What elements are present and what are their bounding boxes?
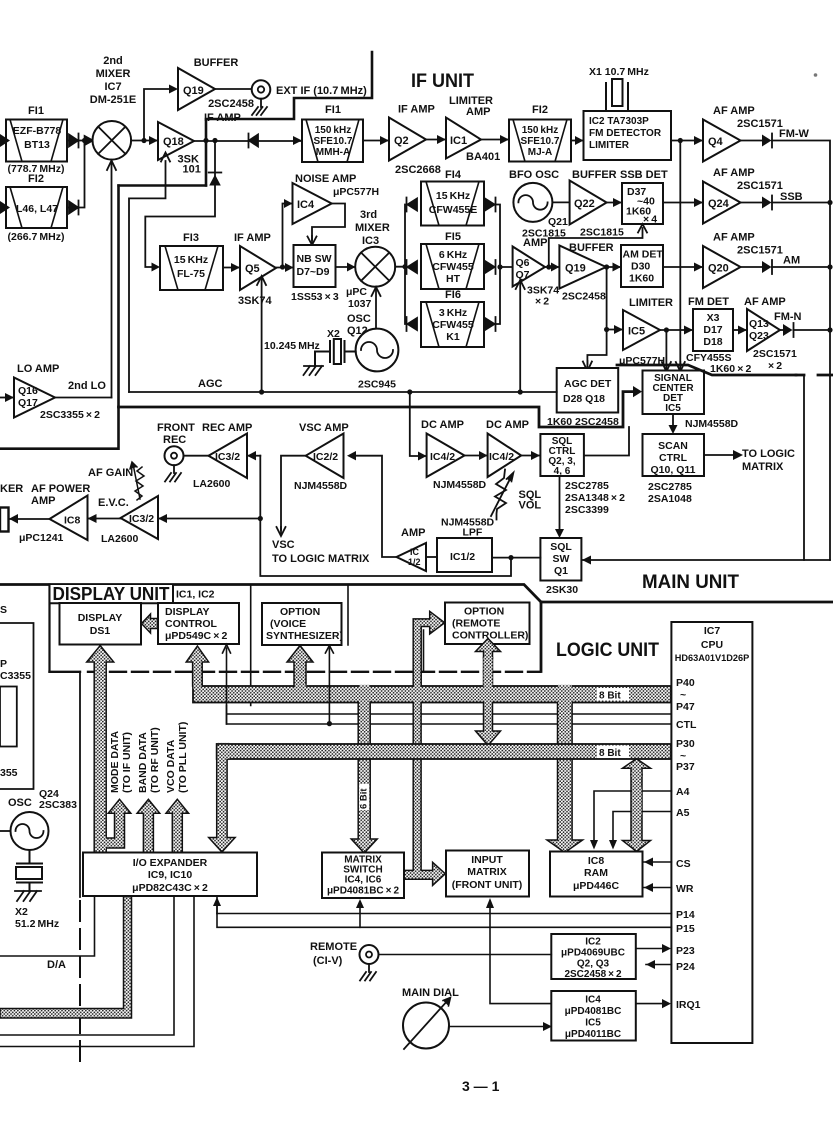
svg-text:BAND DATA: BAND DATA <box>137 732 149 793</box>
IC5 input from AM buffer rail <box>587 267 606 364</box>
svg-text:μPD549C × 2: μPD549C × 2 <box>165 630 227 642</box>
IC5 out down to signal det <box>665 330 667 370</box>
svg-text:AGC: AGC <box>198 378 223 390</box>
ground under FRONT REC <box>165 465 181 481</box>
wire 2nd LO to mixer rail <box>55 397 112 399</box>
svg-text:IC2: IC2 <box>585 937 601 948</box>
svg-text:Q19: Q19 <box>565 263 586 275</box>
svg-text:SSB: SSB <box>780 191 803 203</box>
8 Bit labels <box>597 688 629 701</box>
svg-text:FI6: FI6 <box>445 289 461 301</box>
svg-text:FI1: FI1 <box>28 105 44 117</box>
MATRIX SWITCH box <box>322 853 404 899</box>
IC4 output step down to NB SW <box>312 204 345 241</box>
wire FI1 to node <box>79 140 93 142</box>
svg-text:IC4/2: IC4/2 <box>489 451 514 463</box>
svg-text:FM-W: FM-W <box>779 128 810 140</box>
svg-text:IC4, IC6: IC4, IC6 <box>345 875 382 886</box>
bus elbow to DISPLAY CONTROL + head <box>186 646 208 686</box>
connector EXT IF <box>252 80 271 99</box>
svg-text:VSC AMP: VSC AMP <box>299 422 349 434</box>
bus3 stipple to left edge <box>0 897 132 1019</box>
svg-text:D30: D30 <box>631 261 650 273</box>
svg-text:2nd LO: 2nd LO <box>68 380 106 392</box>
unit boundary vertical at x=80 <box>79 672 81 897</box>
RAM double stipple arrow to bus2 <box>623 759 651 775</box>
svg-text:IC: IC <box>410 547 420 557</box>
svg-text:IC3/2: IC3/2 <box>215 451 240 463</box>
filter FI3 15KHz FL-75 <box>160 246 223 290</box>
svg-text:DISPLAY: DISPLAY <box>78 612 123 624</box>
svg-text:A5: A5 <box>676 807 690 819</box>
SQL CTRL box <box>540 434 584 476</box>
svg-text:IC3: IC3 <box>362 235 379 247</box>
svg-text:Q4: Q4 <box>708 136 724 148</box>
svg-text:A4: A4 <box>676 786 690 798</box>
svg-text:NJM4558D: NJM4558D <box>433 479 487 491</box>
svg-text:2SC3399: 2SC3399 <box>565 504 609 516</box>
display unit dividers <box>251 586 348 706</box>
svg-text:IC3/2: IC3/2 <box>129 513 154 525</box>
svg-text:355: 355 <box>0 767 18 779</box>
VSC amp out down arrow <box>281 456 306 530</box>
ground under EXT IF <box>253 99 269 106</box>
svg-text:2nd: 2nd <box>103 55 123 67</box>
svg-text:OPTION: OPTION <box>464 606 504 618</box>
svg-text:LA2600: LA2600 <box>193 478 231 490</box>
svg-text:CONTROLLER): CONTROLLER) <box>452 630 528 642</box>
P14 line <box>217 913 671 915</box>
svg-text:DC AMP: DC AMP <box>421 419 464 431</box>
svg-text:SSB DET: SSB DET <box>620 169 668 181</box>
svg-text:MIXER: MIXER <box>96 68 131 80</box>
svg-text:IC1, IC2: IC1, IC2 <box>176 589 215 601</box>
svg-text:P37: P37 <box>676 761 695 773</box>
svg-text:KER: KER <box>0 483 23 495</box>
svg-text:S: S <box>0 604 7 616</box>
svg-text:HT: HT <box>446 273 461 285</box>
display unit top border <box>0 585 541 603</box>
wire Q2 to IC1 <box>426 139 446 141</box>
wire FI3 to Q5 <box>223 267 240 269</box>
svg-text:IF AMP: IF AMP <box>234 232 271 244</box>
svg-text:μPC1241: μPC1241 <box>19 532 64 544</box>
svg-text:LIMITER: LIMITER <box>589 140 630 151</box>
svg-text:IF AMP: IF AMP <box>204 112 241 124</box>
svg-text:Q10, Q11: Q10, Q11 <box>651 464 696 476</box>
svg-text:Q7: Q7 <box>516 269 530 281</box>
filter FI5 6KHz CFW455HT <box>421 244 484 289</box>
svg-text:HD63A01V1D26P: HD63A01V1D26P <box>675 653 750 663</box>
svg-text:P47: P47 <box>676 701 695 713</box>
svg-text:FI2: FI2 <box>28 173 44 185</box>
AF amp Q24 (SSB) <box>703 182 741 224</box>
SQL VOL pot <box>495 470 506 520</box>
svg-text:Q23: Q23 <box>749 330 769 342</box>
svg-text:(TO RF UNIT): (TO RF UNIT) <box>149 727 161 793</box>
svg-text:2SA1348 × 2: 2SA1348 × 2 <box>565 492 625 504</box>
AF amp Q20 (AM) <box>703 246 741 288</box>
svg-text:Q13: Q13 <box>749 318 769 330</box>
svg-text:CS: CS <box>676 858 691 870</box>
svg-text:× 2: × 2 <box>768 360 782 372</box>
svg-text:2SC1571: 2SC1571 <box>753 348 797 360</box>
svg-text:OSC: OSC <box>347 313 371 325</box>
DISPLAY DS1 box <box>60 603 142 645</box>
svg-text:P40: P40 <box>676 677 695 689</box>
svg-text:Q20: Q20 <box>708 263 729 275</box>
P15 line <box>217 901 671 927</box>
IF amp Q18 <box>158 122 194 160</box>
svg-text:1/2: 1/2 <box>408 557 421 567</box>
svg-text:μPC577H: μPC577H <box>333 186 379 198</box>
WR arrow <box>644 887 671 889</box>
diode after FI1 <box>67 134 79 148</box>
svg-text:I/O EXPANDER: I/O EXPANDER <box>133 857 208 869</box>
2nd mixer IC7 DM-251E <box>93 121 132 160</box>
svg-text:EXT IF (10.7 MHz): EXT IF (10.7 MHz) <box>276 85 367 97</box>
display unit left border <box>48 585 50 672</box>
svg-text:SYNTHESIZER): SYNTHESIZER) <box>266 630 343 642</box>
stipple arrow into MATRIX SWITCH left <box>404 872 406 874</box>
filter FI2 150kHz SFE10.7 MJ-A <box>509 120 571 162</box>
svg-text:2SC3355 × 2: 2SC3355 × 2 <box>40 409 100 421</box>
thick trunk wire to signal center det <box>119 392 634 427</box>
svg-text:D/A: D/A <box>47 959 66 971</box>
AGC DET box <box>557 368 619 413</box>
svg-text:REMOTE: REMOTE <box>310 941 357 953</box>
svg-text:3SK74: 3SK74 <box>238 295 273 307</box>
svg-text:IC5: IC5 <box>585 1018 601 1029</box>
svg-text:2SC2785: 2SC2785 <box>648 481 692 493</box>
limiter amp IC1 <box>446 118 481 159</box>
diode on Q18 output (left pointing) <box>249 134 259 148</box>
svg-text:D28 Q18: D28 Q18 <box>563 393 605 405</box>
svg-text:Q1: Q1 <box>554 565 568 577</box>
BAND DATA arrow <box>137 799 160 852</box>
svg-text:OSC: OSC <box>8 797 32 809</box>
diodes into filters (left side) <box>407 198 418 212</box>
svg-text:VCO DATA: VCO DATA <box>165 739 177 793</box>
corner speck <box>814 73 818 77</box>
svg-text:DISPLAY UNIT: DISPLAY UNIT <box>53 584 170 604</box>
svg-text:LA2600: LA2600 <box>101 533 139 545</box>
svg-text:AMP: AMP <box>31 495 55 507</box>
svg-text:(TO PLL UNIT): (TO PLL UNIT) <box>177 722 189 793</box>
SSB DET out <box>663 202 703 204</box>
FM DET X3 D17 D18 box <box>693 309 733 351</box>
svg-text:IC2/2: IC2/2 <box>313 451 338 463</box>
svg-text:C3355: C3355 <box>0 670 31 682</box>
svg-text:μPD4011BC: μPD4011BC <box>565 1029 621 1040</box>
svg-text:AMP: AMP <box>466 106 490 118</box>
svg-text:2SC2458: 2SC2458 <box>208 98 254 110</box>
svg-text:FRONT: FRONT <box>157 422 195 434</box>
arrow into 2nd mixer <box>85 136 94 145</box>
svg-text:2SC2458 × 2: 2SC2458 × 2 <box>564 969 622 980</box>
svg-text:15 KHz: 15 KHz <box>174 254 208 266</box>
svg-text:IC9, IC10: IC9, IC10 <box>148 869 193 881</box>
svg-text:P30: P30 <box>676 738 695 750</box>
svg-text:2SC1571: 2SC1571 <box>737 180 783 192</box>
svg-text:P23: P23 <box>676 945 695 957</box>
AGC line <box>129 391 557 393</box>
arrow into FI1 150kHz <box>293 136 302 145</box>
svg-text:TO LOGIC MATRIX: TO LOGIC MATRIX <box>272 553 370 565</box>
stipple arrow DISPLAY CONTROL to DS1 (left) <box>142 614 158 633</box>
IC4 input from NB line <box>283 204 293 268</box>
wire FM-W to right rail <box>772 141 830 561</box>
svg-text:D17: D17 <box>703 324 722 336</box>
diodes out of filters (right side) to collect rail <box>484 198 496 212</box>
dashed vertical <box>79 901 81 1062</box>
svg-text:CTRL: CTRL <box>659 452 688 464</box>
svg-text:μPD4081BC: μPD4081BC <box>565 1006 622 1017</box>
scan ctrl box <box>643 434 705 476</box>
IF amp Q5 <box>240 246 276 290</box>
svg-text:NOISE AMP: NOISE AMP <box>295 173 356 185</box>
wire up to SSB DET bottom <box>549 228 643 267</box>
left PLL fragment box <box>0 623 34 789</box>
IF amp Q2 <box>389 118 426 161</box>
svg-text:MJ-A: MJ-A <box>528 147 552 158</box>
wire Q19 to EXT IF connector <box>215 88 252 90</box>
wire IC1 to FI2 <box>481 139 509 141</box>
right rail dash <box>796 374 833 377</box>
svg-text:μPD82C43C × 2: μPD82C43C × 2 <box>132 882 208 894</box>
thin arrow to OPTION VOICE pin <box>328 648 330 724</box>
P24 line <box>646 964 671 966</box>
title box DISPLAY UNIT <box>50 585 174 603</box>
svg-text:1K60 × 2: 1K60 × 2 <box>710 363 751 375</box>
IC2 logic box <box>551 934 636 979</box>
svg-text:2SC1571: 2SC1571 <box>737 118 783 130</box>
svg-text:2SC1571: 2SC1571 <box>737 245 783 257</box>
svg-text:AF GAIN: AF GAIN <box>88 467 133 479</box>
wire Q18 out with branch down <box>194 140 302 142</box>
svg-text:2SC1815: 2SC1815 <box>580 227 624 239</box>
CS arrow <box>644 861 671 863</box>
svg-text:D7~D9: D7~D9 <box>297 266 330 278</box>
LO feed vertical to 2nd mixer <box>111 161 113 398</box>
svg-text:μPD446C: μPD446C <box>573 880 620 892</box>
wire Q6/7 to buffer Q19 <box>545 266 559 268</box>
wire below OPTION REMOTE arrow <box>423 630 425 671</box>
svg-text:BUFFER: BUFFER <box>194 57 239 69</box>
feed from right rail into SQL SW <box>581 559 830 561</box>
svg-text:Q22: Q22 <box>574 198 595 210</box>
svg-text:LIMITER: LIMITER <box>629 297 673 309</box>
logic unit top border <box>541 601 833 604</box>
svg-text:AM DET: AM DET <box>623 249 664 261</box>
svg-text:FL-75: FL-75 <box>177 268 205 280</box>
svg-text:INPUT: INPUT <box>471 854 503 866</box>
svg-text:6 KHz: 6 KHz <box>439 249 467 261</box>
thick segment under uPC577H <box>617 365 796 375</box>
svg-text:BT13: BT13 <box>24 139 50 151</box>
svg-text:6 Bit: 6 Bit <box>359 788 370 809</box>
svg-text:SFE10.7: SFE10.7 <box>314 136 353 147</box>
svg-text:CTL: CTL <box>676 719 697 731</box>
svg-text:3 KHz: 3 KHz <box>439 307 467 319</box>
svg-text:1K60: 1K60 <box>629 273 654 285</box>
svg-text:AMP: AMP <box>401 527 425 539</box>
V2 bus down to RAM <box>547 703 573 841</box>
wire BFO to Q22 <box>552 201 569 203</box>
svg-text:2SA1048: 2SA1048 <box>648 493 692 505</box>
svg-text:REC AMP: REC AMP <box>202 422 252 434</box>
oscillator Q12 circle <box>356 329 399 372</box>
wire to SQL CTRL <box>521 455 540 457</box>
svg-text:LO AMP: LO AMP <box>17 363 59 375</box>
arrow signal det to scan ctrl <box>672 414 674 426</box>
signal center det box IC5 <box>643 371 705 415</box>
wire FI2 up to node A <box>79 141 85 208</box>
wire Q19 to AM DET <box>606 266 621 268</box>
svg-text:REC: REC <box>163 434 186 446</box>
svg-text:AF AMP: AF AMP <box>713 232 755 244</box>
bus2 elbow down to I/O expander <box>209 744 235 852</box>
wire Q5 to NB SW <box>276 267 294 269</box>
svg-text:Q6: Q6 <box>516 257 530 269</box>
svg-text:2SC2785: 2SC2785 <box>565 480 609 492</box>
svg-text:8 Bit: 8 Bit <box>599 691 621 702</box>
svg-text:FM-N: FM-N <box>774 311 802 323</box>
SQL CTRL down to SQL SW <box>559 476 561 530</box>
display unit bottom dashed border <box>50 671 81 673</box>
svg-text:CPU: CPU <box>701 639 723 651</box>
wire Q22 to SSB DET <box>607 202 622 204</box>
svg-text:(FRONT UNIT): (FRONT UNIT) <box>452 879 523 891</box>
svg-text:X3: X3 <box>707 312 720 324</box>
P23 line <box>636 948 662 950</box>
svg-text:2SC945: 2SC945 <box>358 379 396 391</box>
I/O expander input from logic <box>216 897 218 914</box>
diode after FI2 <box>67 201 79 215</box>
svg-text:IC5: IC5 <box>665 403 681 414</box>
VCO DATA arrow <box>166 799 189 852</box>
svg-text:FI5: FI5 <box>445 231 461 243</box>
svg-text:IF AMP: IF AMP <box>398 104 435 116</box>
AM DET box D30 <box>621 245 663 287</box>
MODE DATA arrow (elbow off DS1 bus) <box>104 799 131 848</box>
svg-text:3rd: 3rd <box>360 209 377 221</box>
svg-text:FM DET: FM DET <box>688 296 729 308</box>
svg-text:MATRIX: MATRIX <box>742 461 784 473</box>
svg-text:2SK30: 2SK30 <box>546 584 578 596</box>
svg-text:2SC2668: 2SC2668 <box>395 164 441 176</box>
CPU box IC7 <box>671 622 752 1043</box>
diode D (vertical, pointing up) <box>209 172 222 174</box>
IC8 RAM box <box>550 852 643 897</box>
svg-text:IC2 TA7303P: IC2 TA7303P <box>589 116 649 127</box>
svg-text:Q24: Q24 <box>708 198 730 210</box>
wire SQL chain down to REC amp <box>260 456 511 576</box>
svg-text:FM DETECTOR: FM DETECTOR <box>589 128 662 139</box>
svg-text:LOGIC UNIT: LOGIC UNIT <box>556 640 659 661</box>
svg-text:IC7: IC7 <box>704 625 721 637</box>
MATRIX SWITCH bottom arrow <box>359 903 361 927</box>
svg-text:IC8: IC8 <box>588 855 605 867</box>
svg-text:VOL: VOL <box>519 500 542 512</box>
bus crossing patches <box>193 685 571 761</box>
Q5 gate arrow from AGC <box>261 279 263 392</box>
AF amp Q4 (FM-W) <box>703 120 741 162</box>
svg-text:Q18: Q18 <box>163 136 184 148</box>
svg-text:101: 101 <box>183 164 201 176</box>
svg-text:μPC: μPC <box>346 286 367 298</box>
Q6/Q7 gate arrow from AGC <box>519 283 521 392</box>
diode FM-W <box>741 140 763 142</box>
svg-text:μPD4069UBC: μPD4069UBC <box>561 948 625 959</box>
svg-text:CFW455: CFW455 <box>432 261 474 273</box>
svg-text:TO LOGIC: TO LOGIC <box>742 448 795 460</box>
svg-text:DISPLAY: DISPLAY <box>165 606 210 618</box>
thin arrow to DISPLAY CONTROL pin <box>226 648 228 724</box>
svg-text:AGC DET: AGC DET <box>564 378 612 390</box>
svg-text:IC4: IC4 <box>297 199 315 211</box>
svg-text:1SS53 × 3: 1SS53 × 3 <box>291 291 339 303</box>
svg-text:OPTION: OPTION <box>280 606 320 618</box>
svg-text:P15: P15 <box>676 923 695 935</box>
buffer Q19 <box>178 68 215 110</box>
SQL SW box Q1 <box>540 538 581 581</box>
svg-text:10.245 MHz: 10.245 MHz <box>264 340 320 352</box>
svg-text:WR: WR <box>676 883 694 895</box>
svg-text:IC8: IC8 <box>64 515 81 527</box>
filter FI4 15KHz CFW455E <box>421 182 484 226</box>
svg-text:DC AMP: DC AMP <box>486 419 529 431</box>
filter FI6 3KHz CFW455K1 <box>421 302 484 347</box>
svg-text:IC1: IC1 <box>450 135 467 147</box>
svg-text:CFW455: CFW455 <box>432 319 474 331</box>
input arrow into FI1 from left edge <box>0 134 10 147</box>
svg-text:NB SW: NB SW <box>297 253 332 265</box>
OSC Q12 input to mixer <box>375 290 377 328</box>
filter FI2 (L46, L47) <box>6 187 67 228</box>
OPTION VOICE stipple arrow shaft <box>287 646 313 687</box>
OPTION VOICE box <box>262 603 342 645</box>
vertical diode branch to FI3 <box>145 141 215 268</box>
A4 line <box>594 791 671 845</box>
svg-text:MATRIX: MATRIX <box>467 866 506 878</box>
svg-text:(TO IF UNIT): (TO IF UNIT) <box>121 732 133 793</box>
wire FI2 to IC2 <box>571 140 583 142</box>
DISPLAY CONTROL box <box>158 603 239 644</box>
svg-text:150 kHz: 150 kHz <box>522 125 558 136</box>
IC2 TA7303P FM detector <box>584 111 672 160</box>
svg-text:BFO OSC: BFO OSC <box>509 169 559 181</box>
6-bit bus down to matrix switch <box>351 702 377 853</box>
svg-text:AF AMP: AF AMP <box>744 296 786 308</box>
SQL SW out to LPF chain <box>492 557 540 559</box>
OPTION REMOTE bottom double arrow <box>476 639 501 659</box>
svg-text:AM: AM <box>783 255 800 267</box>
svg-text:Q2, Q3: Q2, Q3 <box>577 959 610 970</box>
A5 line <box>613 812 671 846</box>
FI4/5/6 selector rail from mixer <box>395 205 405 325</box>
NB SW box <box>294 245 336 287</box>
D/A line <box>0 897 95 957</box>
svg-text:D18: D18 <box>703 336 722 348</box>
svg-text:(REMOTE: (REMOTE <box>452 618 500 630</box>
svg-text:AMP: AMP <box>523 237 547 249</box>
svg-text:DM-251E: DM-251E <box>90 94 136 106</box>
filter FI1 150kHz SFE10.7 MMH-A <box>302 120 363 163</box>
wire A: thick border vertical + gate feed <box>119 184 207 186</box>
svg-text:SCAN: SCAN <box>658 440 688 452</box>
IC2 out node <box>671 140 703 142</box>
